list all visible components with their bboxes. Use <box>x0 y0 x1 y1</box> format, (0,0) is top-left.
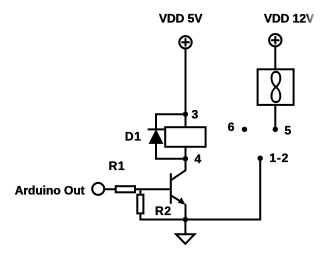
node 3 <box>183 112 188 117</box>
node 1-2 <box>258 156 263 161</box>
svg-text:VDD 5V: VDD 5V <box>159 12 202 26</box>
wire coil to node 4 <box>185 147 187 159</box>
power symbol VDD 5V <box>179 36 191 48</box>
ground <box>176 234 195 244</box>
node 6 <box>242 127 247 132</box>
resistor R1 <box>116 186 135 192</box>
wire VDD5V to node 3 <box>185 49 187 128</box>
svg-text:6: 6 <box>228 120 235 134</box>
wire node 3 to diode top <box>156 114 185 129</box>
wire base to R2 <box>139 189 141 195</box>
wire collector to node 4 <box>185 159 187 171</box>
svg-text:1-2: 1-2 <box>270 151 289 165</box>
node 4 <box>183 156 188 161</box>
junction emitter node <box>183 217 188 222</box>
wire emitter to junction <box>185 205 187 220</box>
wire R1 to base <box>135 188 170 190</box>
svg-text:3: 3 <box>192 108 199 122</box>
power symbol VDD 12V <box>269 34 281 46</box>
wire VDD12V to lamp <box>274 47 276 70</box>
diode D1 <box>149 129 164 143</box>
svg-text:Arduino Out: Arduino Out <box>15 183 85 197</box>
wire junction to node 1-2 riser <box>185 158 260 219</box>
svg-text:D1: D1 <box>125 129 142 143</box>
svg-text:4: 4 <box>195 152 202 166</box>
svg-text:5: 5 <box>285 123 292 137</box>
svg-text:R1: R1 <box>109 159 126 173</box>
node VDD 12V label clip fade <box>306 11 326 25</box>
wire lamp to node 5 <box>274 105 276 129</box>
relay coil box <box>165 127 205 147</box>
transistor Q1 <box>171 170 186 204</box>
wire junction to ground <box>184 220 186 235</box>
wire R2 to bottom rail <box>140 213 185 219</box>
svg-text:R2: R2 <box>155 204 172 218</box>
wire diode bottom to node 4 <box>156 143 185 158</box>
lamp filament figure-8 <box>271 72 280 102</box>
lamp M1 box <box>258 69 294 105</box>
resistor R2 <box>137 195 143 214</box>
terminal circle <box>92 183 104 195</box>
wire terminal to R1 <box>104 188 115 190</box>
node 5 <box>273 127 278 132</box>
